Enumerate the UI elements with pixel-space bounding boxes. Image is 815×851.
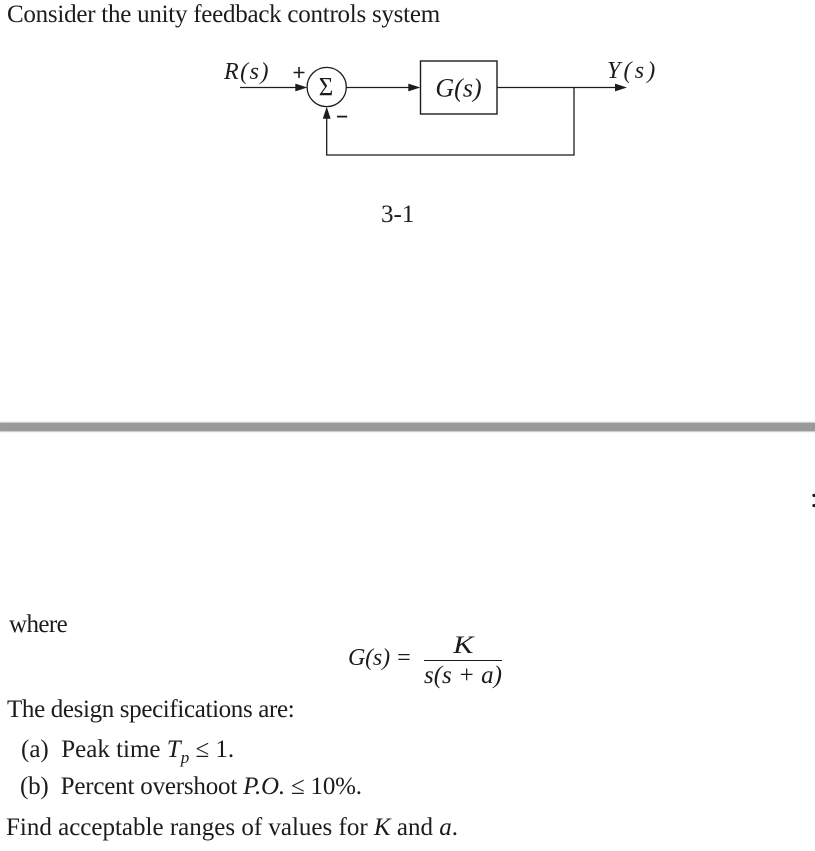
svg-text:Σ: Σ — [319, 73, 334, 102]
wire summing junction to G(s) — [346, 87, 409, 89]
wire R(s) to summing junction — [240, 87, 297, 89]
partially visible colon at right edge — [810, 484, 815, 513]
grey divider bar — [0, 423, 815, 431]
arrowhead into summing junction — [295, 84, 307, 92]
block diagram — [0, 40, 700, 240]
arrowhead into summing junction bottom — [323, 107, 331, 119]
title text — [7, 2, 440, 27]
equation G(s) = K/(s(s+a)) — [348, 646, 412, 670]
svg-text:G(s): G(s) — [435, 74, 481, 103]
svg-text:R(s): R(s) — [223, 59, 270, 85]
wire G(s) to output Y(s) — [497, 87, 616, 89]
summing junction S1 — [307, 67, 346, 106]
figure label 3-1 — [381, 202, 414, 227]
minus sign — [337, 116, 347, 118]
svg-text:Y(s): Y(s) — [607, 58, 658, 84]
arrowhead to output — [615, 84, 627, 92]
where — [9, 612, 67, 637]
feedback wire up into summing junction — [326, 117, 328, 155]
body text lines — [7, 697, 294, 722]
block G1 box — [421, 61, 498, 114]
feedback wire bottom — [326, 154, 575, 156]
takeoff node junction — [573, 88, 575, 156]
plus sign — [294, 67, 305, 78]
arrowhead into block G — [408, 84, 420, 92]
